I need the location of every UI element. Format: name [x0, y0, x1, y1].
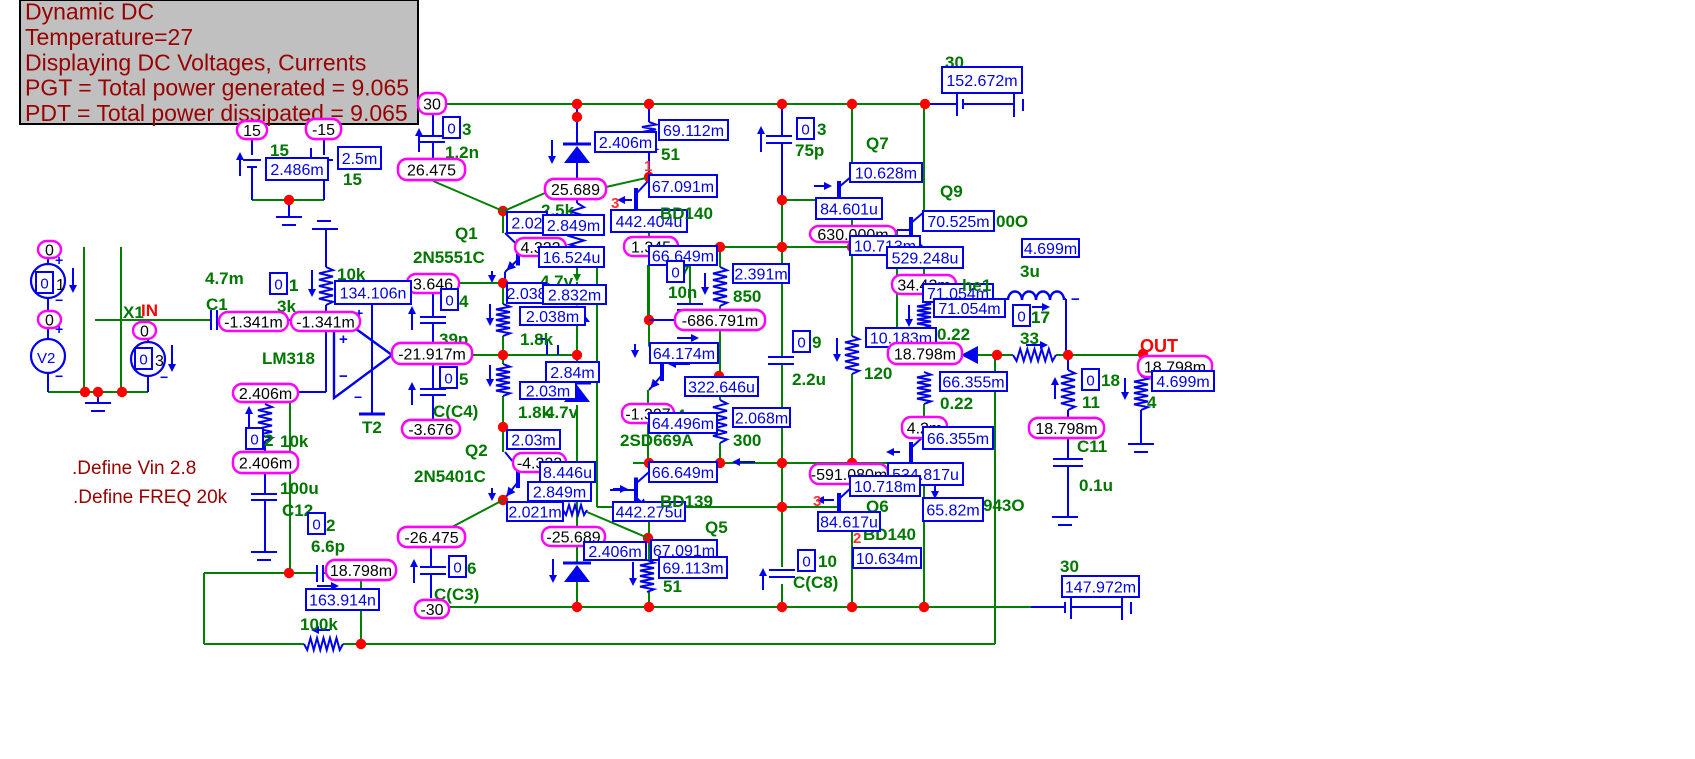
- svg-text:2.038: 2.038: [506, 286, 546, 303]
- svg-text:00O: 00O: [996, 212, 1028, 231]
- svg-text:C11: C11: [1077, 437, 1107, 456]
- svg-text:4: 4: [1147, 393, 1157, 412]
- svg-text:163.914n: 163.914n: [309, 592, 376, 609]
- svg-text:16.524u: 16.524u: [543, 250, 601, 267]
- svg-text:75p: 75p: [795, 141, 824, 160]
- svg-text:84.617u: 84.617u: [820, 514, 878, 531]
- svg-text:+: +: [339, 331, 348, 348]
- svg-text:2N5551C: 2N5551C: [413, 248, 485, 267]
- svg-text:152.672m: 152.672m: [946, 73, 1017, 90]
- svg-text:0: 0: [274, 277, 282, 294]
- svg-text:18.798m: 18.798m: [1035, 421, 1097, 438]
- svg-text:850: 850: [733, 287, 761, 306]
- svg-text:.Define FREQ 20k: .Define FREQ 20k: [73, 487, 228, 508]
- svg-text:1: 1: [644, 158, 652, 175]
- svg-text:8.446u: 8.446u: [543, 465, 592, 482]
- svg-text:2.03m: 2.03m: [526, 383, 570, 400]
- svg-text:0: 0: [45, 242, 54, 259]
- svg-text:0: 0: [453, 560, 461, 577]
- svg-text:-30: -30: [420, 602, 443, 619]
- svg-text:C(C4): C(C4): [433, 402, 478, 421]
- svg-text:0: 0: [671, 265, 679, 282]
- svg-text:−: −: [160, 369, 168, 385]
- svg-text:1.8k: 1.8k: [520, 330, 554, 349]
- svg-text:6: 6: [467, 559, 476, 578]
- svg-text:0.22: 0.22: [940, 394, 973, 413]
- svg-text:9: 9: [812, 333, 821, 352]
- svg-text:322.646u: 322.646u: [688, 379, 755, 396]
- svg-text:120: 120: [864, 364, 892, 383]
- svg-text:0: 0: [444, 371, 452, 388]
- svg-text:18.798m: 18.798m: [894, 346, 956, 363]
- svg-text:84.601u: 84.601u: [820, 201, 878, 218]
- svg-text:0.1u: 0.1u: [1079, 476, 1113, 495]
- svg-text:66.355m: 66.355m: [942, 374, 1004, 391]
- svg-text:3: 3: [813, 493, 821, 510]
- svg-text:11: 11: [1082, 393, 1100, 412]
- svg-text:2.5m: 2.5m: [342, 151, 378, 168]
- svg-text:67.091m: 67.091m: [652, 179, 714, 196]
- svg-text:Q5: Q5: [705, 518, 728, 537]
- svg-text:-15: -15: [312, 122, 335, 139]
- svg-text:Temperature=27: Temperature=27: [25, 24, 193, 50]
- svg-text:15: 15: [343, 170, 362, 189]
- svg-text:PGT = Total power generated =: PGT = Total power generated = 9.065: [25, 75, 409, 101]
- svg-text:3u: 3u: [1020, 262, 1040, 281]
- svg-text:2N5401C: 2N5401C: [414, 467, 486, 486]
- svg-text:2.849m: 2.849m: [547, 218, 600, 235]
- svg-text:4.699m: 4.699m: [1024, 241, 1077, 258]
- svg-text:Displaying DC Voltages, Curren: Displaying DC Voltages, Currents: [25, 49, 366, 75]
- svg-text:IN: IN: [141, 301, 158, 320]
- svg-text:2: 2: [326, 516, 335, 535]
- svg-text:0: 0: [140, 323, 149, 340]
- svg-text:300: 300: [733, 431, 761, 450]
- svg-text:0: 0: [139, 352, 147, 369]
- svg-text:943O: 943O: [983, 496, 1025, 515]
- svg-text:10n: 10n: [668, 283, 697, 302]
- svg-text:−: −: [1071, 291, 1080, 308]
- svg-text:0: 0: [445, 293, 453, 310]
- svg-text:0: 0: [1017, 309, 1025, 326]
- svg-text:2.849m: 2.849m: [533, 484, 586, 501]
- svg-text:2.406m: 2.406m: [239, 455, 292, 472]
- svg-text:0: 0: [802, 554, 810, 571]
- svg-text:1: 1: [289, 276, 298, 295]
- svg-text:147.972m: 147.972m: [1065, 579, 1136, 596]
- svg-text:30: 30: [423, 96, 441, 113]
- svg-text:2.84m: 2.84m: [550, 365, 594, 382]
- svg-text:64.174m: 64.174m: [653, 346, 715, 363]
- svg-text:0: 0: [801, 122, 809, 139]
- svg-text:10.718m: 10.718m: [854, 479, 916, 496]
- svg-text:-1.341m: -1.341m: [224, 314, 283, 331]
- svg-text:69.113m: 69.113m: [662, 560, 723, 577]
- svg-text:-21.917m: -21.917m: [398, 346, 466, 363]
- svg-text:2.832m: 2.832m: [548, 287, 601, 304]
- svg-text:2.486m: 2.486m: [270, 162, 323, 179]
- svg-text:0: 0: [447, 121, 455, 138]
- svg-text:0: 0: [40, 276, 48, 293]
- svg-text:Q1: Q1: [455, 224, 478, 243]
- svg-text:66.649m: 66.649m: [652, 465, 714, 482]
- svg-text:70.525m: 70.525m: [927, 214, 989, 231]
- svg-text:100u: 100u: [280, 479, 319, 498]
- svg-text:2.391m: 2.391m: [734, 266, 787, 283]
- svg-text:0: 0: [312, 517, 320, 534]
- svg-text:PDT = Total power dissipated =: PDT = Total power dissipated = 9.065: [25, 100, 408, 126]
- svg-text:0: 0: [797, 335, 805, 352]
- svg-text:66.355m: 66.355m: [927, 431, 989, 448]
- svg-text:2.068m: 2.068m: [735, 410, 788, 427]
- svg-text:6.6p: 6.6p: [311, 537, 345, 556]
- svg-text:18: 18: [1101, 371, 1120, 390]
- svg-text:17: 17: [1031, 308, 1050, 327]
- svg-text:2.2u: 2.2u: [792, 370, 826, 389]
- svg-text:-686.791m: -686.791m: [682, 313, 759, 330]
- svg-text:2: 2: [853, 530, 861, 547]
- svg-text:−: −: [339, 368, 348, 385]
- svg-text:-1.341m: -1.341m: [296, 314, 355, 331]
- svg-text:−: −: [55, 292, 63, 308]
- svg-text:BD139: BD139: [660, 492, 713, 511]
- svg-text:5: 5: [459, 370, 468, 389]
- svg-text:4.699m: 4.699m: [1156, 374, 1209, 391]
- svg-text:-26.475: -26.475: [404, 530, 458, 547]
- svg-text:4: 4: [459, 292, 469, 311]
- svg-text:2.038m: 2.038m: [526, 309, 579, 326]
- svg-text:C1: C1: [206, 295, 228, 314]
- svg-text:2.406m: 2.406m: [599, 135, 652, 152]
- svg-text:T2: T2: [362, 418, 382, 437]
- svg-text:OUT: OUT: [1140, 336, 1178, 356]
- svg-text:Q2: Q2: [465, 441, 488, 460]
- svg-text:100k: 100k: [300, 615, 338, 634]
- svg-text:LM318: LM318: [262, 349, 315, 368]
- svg-text:10.628m: 10.628m: [855, 165, 917, 182]
- svg-text:64.496m: 64.496m: [652, 416, 714, 433]
- svg-text:25.689: 25.689: [551, 182, 600, 199]
- svg-text:51: 51: [663, 577, 682, 596]
- svg-text:30: 30: [1060, 557, 1079, 576]
- svg-text:69.112m: 69.112m: [663, 123, 724, 140]
- svg-text:.Define Vin 2.8: .Define Vin 2.8: [72, 458, 196, 479]
- svg-text:V2: V2: [37, 350, 55, 367]
- svg-text:he1: he1: [962, 276, 991, 295]
- svg-text:15: 15: [243, 123, 261, 140]
- svg-text:−: −: [354, 389, 362, 405]
- svg-text:4.7m: 4.7m: [205, 269, 244, 288]
- svg-text:134.106n: 134.106n: [340, 285, 407, 302]
- svg-text:BD140: BD140: [660, 204, 713, 223]
- svg-text:18.798m: 18.798m: [330, 563, 392, 580]
- svg-text:65.82m: 65.82m: [926, 502, 979, 519]
- svg-text:10.634m: 10.634m: [856, 551, 918, 568]
- svg-text:Q7: Q7: [866, 134, 889, 153]
- svg-text:0: 0: [1086, 373, 1094, 390]
- svg-text:10k: 10k: [280, 432, 309, 451]
- svg-text:2: 2: [264, 431, 273, 450]
- svg-text:2.406m: 2.406m: [239, 386, 292, 403]
- svg-text:33: 33: [1020, 329, 1039, 348]
- svg-text:10: 10: [818, 552, 837, 571]
- svg-text:0.22: 0.22: [937, 325, 970, 344]
- svg-text:-3.676: -3.676: [408, 422, 453, 439]
- svg-text:1: 1: [56, 277, 65, 294]
- svg-text:Dynamic DC: Dynamic DC: [25, 0, 154, 25]
- svg-text:2.02: 2.02: [511, 215, 542, 232]
- svg-text:26.475: 26.475: [407, 162, 456, 179]
- svg-text:3: 3: [817, 120, 826, 139]
- svg-text:4.7v: 4.7v: [545, 403, 579, 422]
- svg-text:3: 3: [462, 120, 471, 139]
- svg-text:3: 3: [155, 353, 164, 370]
- svg-text:51: 51: [661, 145, 680, 164]
- svg-text:0: 0: [250, 432, 258, 449]
- svg-text:C(C8): C(C8): [793, 573, 838, 592]
- svg-text:2.03m: 2.03m: [511, 432, 555, 449]
- svg-text:71.054m: 71.054m: [938, 301, 1000, 318]
- svg-text:0: 0: [45, 312, 54, 329]
- svg-text:2.021m: 2.021m: [508, 504, 561, 521]
- svg-text:Q9: Q9: [940, 182, 963, 201]
- svg-text:−: −: [55, 368, 63, 384]
- svg-text:2.406m: 2.406m: [588, 544, 641, 561]
- svg-text:529.248u: 529.248u: [892, 250, 959, 267]
